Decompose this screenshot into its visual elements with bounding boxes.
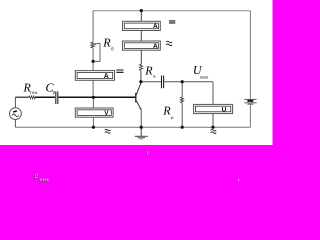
svg-text:R: R — [144, 64, 153, 78]
svg-text:ген: ген — [30, 91, 37, 96]
svg-text:A: A — [153, 43, 158, 50]
svg-text:R: R — [162, 103, 171, 117]
svg-text:н: н — [171, 116, 174, 121]
svg-text:вых: вых — [39, 178, 49, 183]
svg-text:вых: вых — [200, 76, 209, 81]
svg-text:A: A — [104, 73, 109, 80]
svg-text:A: A — [153, 23, 158, 30]
svg-text:R: R — [102, 35, 111, 49]
svg-text:г: г — [237, 178, 240, 184]
svg-text:e: e — [34, 171, 38, 181]
svg-text:V: V — [104, 110, 109, 117]
svg-text:U: U — [222, 107, 227, 114]
svg-text:г: г — [146, 151, 149, 157]
